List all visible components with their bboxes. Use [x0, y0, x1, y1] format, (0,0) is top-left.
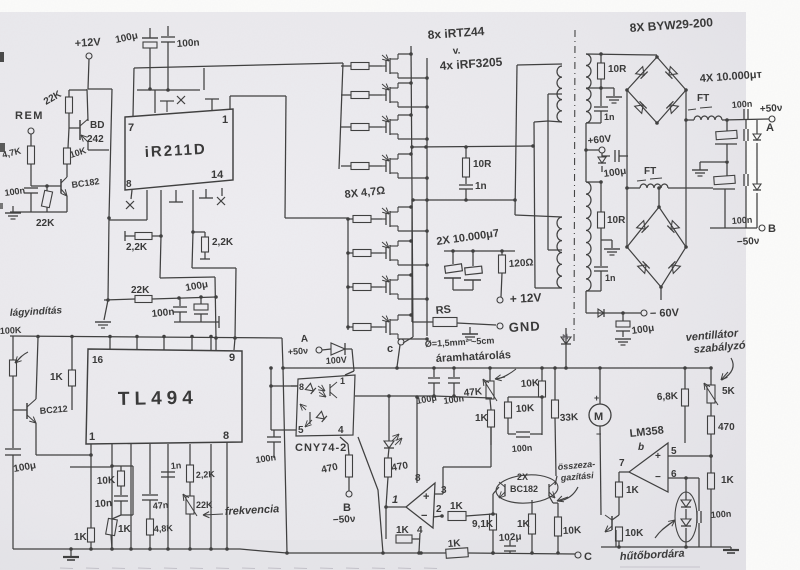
svg-text:1K: 1K	[517, 519, 531, 530]
svg-text:C: C	[584, 551, 592, 563]
svg-text:6,8K: 6,8K	[657, 391, 679, 403]
svg-text:9,1K: 9,1K	[472, 519, 494, 530]
svg-text:1n: 1n	[605, 273, 616, 283]
svg-text:100V: 100V	[325, 355, 347, 366]
svg-text:1: 1	[392, 494, 398, 506]
svg-text:10K: 10K	[625, 528, 644, 539]
svg-text:2: 2	[436, 504, 442, 515]
svg-text:− 60V: − 60V	[650, 307, 680, 320]
svg-text:5: 5	[671, 446, 677, 457]
svg-text:RS: RS	[435, 304, 451, 317]
svg-text:BC182: BC182	[510, 484, 538, 494]
svg-text:2,2K: 2,2K	[196, 469, 216, 480]
svg-text:+: +	[594, 393, 599, 403]
svg-text:10K: 10K	[516, 403, 536, 415]
svg-text:1: 1	[340, 376, 345, 386]
svg-text:iR211D: iR211D	[144, 141, 207, 161]
svg-text:47K: 47K	[463, 386, 483, 399]
svg-text:1K: 1K	[450, 501, 464, 512]
svg-text:100n: 100n	[710, 509, 731, 520]
svg-text:22K: 22K	[36, 218, 55, 229]
svg-text:33K: 33K	[560, 412, 580, 424]
svg-text:120Ω: 120Ω	[508, 257, 533, 270]
svg-text:+50ν: +50ν	[760, 103, 784, 115]
svg-text:4,8K: 4,8K	[154, 523, 174, 534]
svg-text:10R: 10R	[473, 159, 492, 170]
svg-text:2,2K: 2,2K	[212, 237, 234, 248]
svg-text:10K: 10K	[97, 475, 117, 487]
svg-text:5K: 5K	[722, 386, 736, 397]
svg-text:10K: 10K	[563, 525, 583, 537]
svg-text:REM: REM	[15, 110, 44, 122]
svg-text:100n: 100n	[511, 443, 532, 454]
svg-text:10K: 10K	[520, 378, 540, 390]
svg-text:9: 9	[229, 352, 235, 364]
svg-text:1: 1	[222, 114, 228, 126]
svg-text:7: 7	[128, 122, 134, 134]
svg-text:10n: 10n	[95, 498, 113, 510]
svg-text:+12V: +12V	[74, 36, 101, 50]
svg-text:1n: 1n	[475, 181, 487, 192]
svg-text:14: 14	[211, 169, 224, 181]
svg-text:−: −	[655, 472, 661, 483]
svg-text:242: 242	[87, 134, 104, 145]
svg-text:7: 7	[619, 458, 625, 469]
svg-text:b: b	[638, 442, 644, 453]
svg-text:−50ν: −50ν	[737, 236, 761, 248]
svg-text:1n: 1n	[170, 460, 181, 471]
svg-text:2,2K: 2,2K	[126, 242, 148, 253]
svg-text:100n: 100n	[176, 37, 200, 50]
svg-text:B: B	[343, 502, 351, 514]
svg-text:1K: 1K	[447, 538, 461, 550]
svg-text:470: 470	[718, 422, 735, 433]
svg-text:+50ν: +50ν	[287, 346, 308, 357]
svg-text:22K: 22K	[131, 285, 150, 296]
svg-text:1n: 1n	[604, 112, 615, 122]
svg-text:A: A	[300, 334, 308, 345]
svg-text:5: 5	[298, 425, 304, 436]
svg-text:8: 8	[415, 473, 421, 484]
svg-text:4: 4	[338, 425, 344, 436]
svg-text:1K: 1K	[475, 413, 489, 424]
svg-text:1K: 1K	[74, 532, 88, 543]
svg-text:+: +	[655, 451, 661, 462]
svg-text:M: M	[594, 411, 603, 423]
svg-text:1K: 1K	[118, 524, 132, 535]
svg-text:16: 16	[92, 355, 104, 366]
svg-text:CNY74-2: CNY74-2	[295, 442, 347, 454]
svg-text:v.: v.	[452, 45, 461, 57]
svg-text:1K: 1K	[721, 475, 735, 486]
svg-text:−50ν: −50ν	[333, 514, 357, 526]
svg-text:100n: 100n	[731, 99, 752, 110]
svg-text:10R: 10R	[608, 64, 627, 75]
svg-text:A: A	[766, 122, 774, 134]
svg-text:8: 8	[223, 430, 229, 442]
svg-text:2X: 2X	[517, 472, 528, 482]
svg-text:GND: GND	[508, 318, 541, 335]
svg-text:−: −	[421, 510, 427, 522]
svg-text:100K: 100K	[0, 325, 22, 336]
svg-text:1K: 1K	[396, 525, 410, 536]
svg-text:FT: FT	[644, 166, 656, 177]
svg-text:1K: 1K	[50, 372, 64, 383]
svg-text:+ 12V: + 12V	[509, 290, 541, 306]
svg-text:c: c	[387, 343, 393, 355]
svg-text:1K: 1K	[626, 485, 640, 496]
svg-text:+: +	[423, 491, 429, 503]
svg-text:B: B	[768, 223, 776, 235]
svg-text:8: 8	[126, 179, 132, 190]
svg-text:BD: BD	[90, 120, 104, 131]
svg-text:100n: 100n	[731, 215, 752, 226]
svg-text:1: 1	[89, 431, 95, 443]
svg-text:TL494: TL494	[118, 388, 198, 410]
svg-text:47n: 47n	[152, 500, 168, 511]
svg-text:8: 8	[299, 382, 304, 392]
svg-text:10R: 10R	[607, 215, 626, 226]
svg-text:FT: FT	[697, 93, 709, 104]
